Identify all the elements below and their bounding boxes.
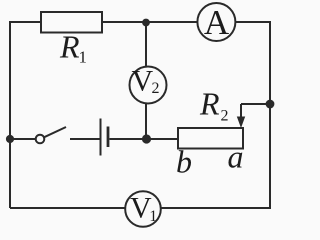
resistor R1 xyxy=(41,12,102,33)
wire top middle segment xyxy=(101,21,198,23)
wire battery row: dot to switch xyxy=(10,138,36,140)
wire right vertical xyxy=(269,21,271,208)
junction node: left of battery row xyxy=(6,135,14,143)
switch S blade xyxy=(44,127,66,137)
svg-text:b: b xyxy=(176,144,192,180)
wire switch to battery xyxy=(70,138,100,140)
wire slider horizontal xyxy=(241,103,270,105)
ammeter U-A circle xyxy=(197,3,235,41)
wire middle vertical lower xyxy=(145,103,147,139)
slider arrowhead xyxy=(237,117,245,129)
rheostat R2 body xyxy=(178,128,243,149)
wire bottom right segment xyxy=(161,207,271,209)
svg-text:2: 2 xyxy=(221,108,229,125)
wire left vertical xyxy=(9,22,11,208)
svg-text:1: 1 xyxy=(79,48,88,67)
svg-text:R: R xyxy=(59,29,80,65)
junction node: bottom of V2 branch xyxy=(142,134,151,143)
junction node: slider tap on right wire xyxy=(266,100,275,109)
svg-text:a: a xyxy=(228,139,244,175)
svg-text:1: 1 xyxy=(149,208,157,225)
svg-text:2: 2 xyxy=(152,80,160,97)
switch S pivot circle xyxy=(36,135,45,144)
battery short plate xyxy=(107,127,110,148)
wire slider vertical xyxy=(240,104,242,119)
wire top right segment xyxy=(235,21,270,23)
wire battery to junction xyxy=(110,138,147,140)
battery long plate xyxy=(100,119,102,156)
wire junction to R2 xyxy=(146,138,178,140)
wire bottom left segment xyxy=(10,207,126,209)
junction node: top of V2 branch xyxy=(142,19,150,27)
voltmeter V1 circle xyxy=(125,191,161,227)
wire middle vertical upper xyxy=(145,22,147,67)
svg-text:R: R xyxy=(199,86,220,122)
voltmeter V2 circle xyxy=(130,67,167,104)
svg-text:V: V xyxy=(131,65,153,98)
svg-text:A: A xyxy=(204,3,230,42)
wire top left segment xyxy=(9,21,41,23)
